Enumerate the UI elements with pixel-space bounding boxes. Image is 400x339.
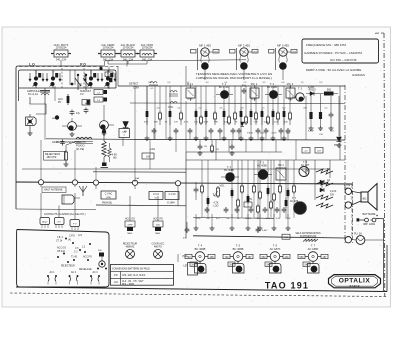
OPTALIX logo badge <box>329 275 381 288</box>
clavier key Ampl <box>40 218 50 229</box>
audio section box <box>186 152 282 238</box>
svg-text:480 KHZ: 480 KHZ <box>47 156 57 159</box>
IF transformer MF3 <box>286 83 295 101</box>
svg-text:AC 2: AC 2 <box>71 271 77 274</box>
dash separator speaker line <box>352 182 354 245</box>
svg-text:FREQUENCE MIL : 480 KHZ: FREQUENCE MIL : 480 KHZ <box>306 43 346 47</box>
svg-text:T1 45: T1 45 <box>71 257 78 259</box>
svg-text:50V: 50V <box>330 195 335 197</box>
svg-text:GHI, JAR, CL/4, SL/FF: GHI, JAR, CL/4, SL/FF <box>122 274 146 277</box>
svg-text:550: 550 <box>300 256 305 259</box>
IF decoupling caps row <box>152 128 291 140</box>
paper speckle texture <box>6 30 386 303</box>
pinout T7 AC188K <box>298 244 328 273</box>
keyboard inner labels <box>56 235 92 271</box>
output coupling labels <box>344 185 351 190</box>
svg-text:(M. PE): (M. PE) <box>76 148 84 151</box>
coupling cap audio in <box>194 182 199 200</box>
svg-text:PO/GO: PO/GO <box>76 143 85 147</box>
svg-text:beige: beige <box>251 99 257 101</box>
svg-text:GARDAN: GARDAN <box>352 73 365 77</box>
rejecteur 480 label <box>44 151 66 160</box>
hanging caps under IF rail <box>198 140 235 155</box>
coil block stubs to box <box>61 60 147 66</box>
polarised diode POL <box>334 96 342 147</box>
svg-text:M.F.1: M.F.1 <box>187 83 194 86</box>
contacts clavier label <box>44 213 86 216</box>
rail second <box>130 102 345 105</box>
svg-text:OSC: OSC <box>168 106 173 109</box>
bus contact circles <box>38 180 180 186</box>
svg-text:GO 150 ~ 240 KHZ: GO 150 ~ 240 KHZ <box>330 58 357 62</box>
svg-text:M.F. 2: M.F. 2 <box>251 83 258 86</box>
detector diode AA119 <box>306 89 320 96</box>
clavier key PO <box>70 220 80 231</box>
svg-text:5Ω: 5Ω <box>327 168 330 171</box>
wire bus to fuse <box>351 184 353 236</box>
bottom rule line <box>16 287 387 292</box>
sheet border dash-dot right <box>375 33 385 296</box>
svg-text:M.F. 3: M.F. 3 <box>287 83 294 86</box>
cap 0047 bottom rail <box>256 226 269 233</box>
feedback diodes <box>320 180 324 192</box>
oscillator transistor T osc <box>62 118 82 136</box>
choke block CHO.MOYF <box>51 43 71 62</box>
svg-text:1070/234: 1070/234 <box>56 46 67 50</box>
emitter resistors 5 ohm <box>316 168 333 174</box>
OSC PO/GO label <box>76 140 85 151</box>
supply rail top <box>118 85 345 87</box>
svg-text:47PF: 47PF <box>127 225 133 227</box>
note tensions mesurees <box>196 72 273 80</box>
AGC diode AAPP <box>308 87 315 90</box>
pinout T5 BC408B <box>223 244 253 273</box>
svg-text:CL3 , 3/4 , T/8 , SD/7: CL3 , 3/4 , T/8 , SD/7 <box>122 281 144 283</box>
svg-text:5,6K: 5,6K <box>264 122 269 124</box>
svg-text:560: 560 <box>327 89 332 92</box>
acc po resistor <box>58 94 69 105</box>
svg-text:4,7K: 4,7K <box>184 122 189 124</box>
volume pot VOL <box>213 185 225 208</box>
audio top rail <box>186 159 345 161</box>
svg-text:MF 1 455: MF 1 455 <box>199 43 211 47</box>
audio inner rail <box>193 217 274 220</box>
pinout T6 AC187K <box>260 244 290 273</box>
svg-text:REJECTEUR: REJECTEUR <box>61 266 75 268</box>
svg-text:LOG: LOG <box>213 205 218 208</box>
det coil DETECT <box>149 82 158 91</box>
osc tank cluster <box>101 128 118 168</box>
svg-text:249: 249 <box>285 256 290 259</box>
left lower verticals <box>41 86 96 180</box>
keyboard tiny parts <box>57 238 91 264</box>
svg-text:OPTALIX: OPTALIX <box>339 278 371 285</box>
tuning gang CV PO <box>75 74 89 96</box>
connexions batterie table <box>111 265 174 287</box>
svg-text:BC 408B: BC 408B <box>224 169 234 172</box>
IF can MF3 top view <box>269 43 298 70</box>
svg-text:740: 740 <box>187 256 192 259</box>
svg-text:CT 14: CT 14 <box>56 241 63 243</box>
svg-text:138: 138 <box>210 256 215 259</box>
cap 100pf osc <box>52 140 65 146</box>
svg-text:R A D I O: R A D I O <box>350 285 360 288</box>
svg-text:1Ω: 1Ω <box>327 179 330 182</box>
svg-text:SUPPRESSOR: SUPPRESSOR <box>300 235 317 238</box>
svg-text:ACC. PO: ACC. PO <box>153 218 163 221</box>
svg-text:G O: G O <box>57 222 61 224</box>
svg-text:Ampl: Ampl <box>42 221 47 224</box>
svg-text:BC 408B: BC 408B <box>233 247 244 251</box>
keyboard volume pot <box>97 250 107 270</box>
loudspeaker <box>361 184 377 211</box>
svg-text:B.F.1: B.F.1 <box>278 164 284 167</box>
ground rail IF <box>140 139 345 142</box>
svg-text:Vus côté PO ): Vus côté PO ) <box>70 213 86 216</box>
boxes 2,2 and 247 <box>302 148 323 154</box>
dark blob 5A <box>52 115 59 120</box>
band switch box <box>19 70 117 101</box>
svg-text:10UF: 10UF <box>195 218 201 220</box>
svg-text:2N2: 2N2 <box>191 264 196 267</box>
emitter resistors lower <box>316 191 337 208</box>
clavier key GO <box>55 218 65 229</box>
cour acc adjust <box>152 243 165 259</box>
svg-text:MAX.: MAX. <box>155 232 161 235</box>
svg-text:COM: COM <box>133 87 139 90</box>
svg-text:ACC PO: ACC PO <box>83 256 92 259</box>
filter cap 10V <box>318 94 324 136</box>
PO switch contact group 2 <box>101 70 116 88</box>
cap 47u mid <box>70 110 81 116</box>
svg-text:1N: 1N <box>204 146 207 148</box>
svg-text:550: 550 <box>262 256 267 259</box>
haut antenne label <box>42 187 66 193</box>
self antiparasites label <box>295 232 321 238</box>
svg-text:MAX.: MAX. <box>127 232 133 235</box>
keyboard switch a <box>47 271 57 285</box>
svg-text:6,8K: 6,8K <box>204 122 209 124</box>
model number TAO 191 <box>265 281 309 291</box>
svg-text:→GO: →GO <box>112 282 118 284</box>
antenna coil ferrite <box>40 88 50 104</box>
emitter resistors 10 ohm <box>316 179 333 186</box>
label 14A <box>135 177 139 180</box>
svg-text:AC 3: AC 3 <box>92 271 98 274</box>
svg-text:2,2K: 2,2K <box>274 122 279 124</box>
battery label <box>363 212 376 226</box>
preamp transistor T4 <box>221 166 239 182</box>
svg-text:C.PO: C.PO <box>69 236 75 238</box>
resistor 560 top right <box>320 89 338 96</box>
audio caps row <box>205 207 287 213</box>
cadre antenne line <box>46 139 140 144</box>
svg-text:4 BV.: 4 BV. <box>112 154 118 156</box>
svg-text:VOL: VOL <box>219 185 225 188</box>
det com labels <box>129 83 139 90</box>
svg-text:HAUT ANTENNE: HAUT ANTENNE <box>44 189 63 192</box>
svg-text:O 194A: O 194A <box>167 202 175 205</box>
CV OSC box <box>149 192 163 200</box>
spec box frequencies <box>302 39 379 63</box>
svg-text:(TO): (TO) <box>292 51 296 53</box>
wire stub top right of box <box>105 60 246 67</box>
survolt boxes <box>94 90 107 103</box>
svg-text:6V~0,1A: 6V~0,1A <box>28 92 38 96</box>
misc vertical wires <box>118 66 296 182</box>
svg-text:ACC GO: ACC GO <box>57 247 66 250</box>
svg-text:47µ: 47µ <box>76 112 81 115</box>
svg-text:L'ABSENCE DE SIGNAL PAR RAP: L'ABSENCE DE SIGNAL PAR RAPPORT A LA MAS… <box>196 76 273 80</box>
svg-text:MF 2 455: MF 2 455 <box>238 43 250 47</box>
frame right of logo <box>386 245 388 292</box>
note debit a vide <box>306 68 365 77</box>
svg-text:82K: 82K <box>154 122 158 124</box>
svg-text:CONTACTS CLAVIER (: CONTACTS CLAVIER ( <box>44 213 70 216</box>
fuse holder <box>345 233 365 245</box>
svg-text:47K: 47K <box>144 122 148 124</box>
keyboard switch b <box>69 271 79 285</box>
svg-text:100/7: 100/7 <box>271 133 277 135</box>
mid rail value labels <box>157 107 329 109</box>
audio ground row <box>194 214 291 230</box>
svg-text:DECELAGE: DECELAGE <box>79 268 92 271</box>
top rail value labels <box>148 82 323 84</box>
IF can MF2 top view <box>230 43 259 70</box>
diode osc right <box>123 122 129 134</box>
thermistor CTN <box>244 198 252 207</box>
svg-text:CTN: CTN <box>247 198 252 201</box>
svg-text:6,8UF: 6,8UF <box>308 131 315 133</box>
pinout T4 BC408B <box>185 244 215 273</box>
suppressor coil <box>303 239 318 242</box>
svg-text:39K: 39K <box>214 122 218 124</box>
coil block BOB.BLANC <box>118 43 138 62</box>
svg-text:T. 3: T. 3 <box>298 88 303 91</box>
LO switch contact group 2 <box>46 70 61 88</box>
svg-text:8,2K: 8,2K <box>276 218 281 220</box>
svg-text:AC 187K: AC 187K <box>270 247 281 251</box>
svg-text:BC 409B: BC 409B <box>257 165 267 168</box>
cag label and box <box>142 148 155 159</box>
svg-text:CONNEXIONS BATTERIE (9V PILE): CONNEXIONS BATTERIE (9V PILE) <box>112 268 150 271</box>
svg-text:blanc: blanc <box>187 99 193 101</box>
battery symbol <box>357 213 381 222</box>
drops to clavier keys <box>41 193 158 221</box>
svg-text:(PM): (PM) <box>106 197 111 199</box>
audio value labels <box>195 218 291 220</box>
padder 3400 box <box>82 100 90 114</box>
svg-text:480 PO: 480 PO <box>154 246 162 249</box>
svg-text:1070/234: 1070/234 <box>103 46 114 50</box>
svg-text:540 - 234: 540 - 234 <box>56 58 67 61</box>
right stack components <box>99 67 113 90</box>
PO switch contact group 1 <box>84 70 99 88</box>
svg-text:100UF: 100UF <box>245 218 252 220</box>
chassis bus line <box>16 182 352 184</box>
coil block BOB.FERR <box>98 43 118 62</box>
svg-text:(M): (M) <box>113 157 117 159</box>
transistor T3 det <box>292 88 304 102</box>
audio electrolytic 47uF <box>183 222 189 240</box>
svg-text:27K: 27K <box>174 122 178 124</box>
svg-text:BF 194B: BF 194B <box>267 86 277 89</box>
car antenna symbol <box>79 186 87 196</box>
svg-text:G O: G O <box>78 235 82 237</box>
svg-text:0,047: 0,047 <box>262 230 268 232</box>
osc transformer <box>168 91 178 110</box>
diode left edge band <box>241 122 245 126</box>
svg-text:187: 187 <box>248 256 253 259</box>
svg-text:2N2: 2N2 <box>229 264 234 267</box>
svg-text:TAO 191: TAO 191 <box>265 281 309 291</box>
output transistor T6 AC187 <box>299 161 310 177</box>
svg-text:6,8/20: 6,8/20 <box>247 133 254 135</box>
bus drops <box>41 185 178 206</box>
battery positive wire to frame <box>380 219 384 292</box>
sheet border dashed bottom <box>10 293 388 297</box>
svg-text:8Ω: 8Ω <box>363 197 367 201</box>
LO switch contact group 1 <box>29 70 44 88</box>
audio resistors row <box>201 160 296 218</box>
speaker terminals <box>345 188 361 208</box>
svg-text:→PO: →PO <box>112 275 118 277</box>
svg-text:(4): (4) <box>68 240 71 242</box>
osc coil with slug <box>66 137 93 152</box>
box 1A5 osc right <box>119 129 130 146</box>
keyboard switch c <box>90 271 100 285</box>
svg-text:540: 540 <box>267 264 272 267</box>
mixer transistor right <box>100 105 114 135</box>
svg-text:ACC. GO: ACC. GO <box>125 218 135 221</box>
svg-text:MF 3 455: MF 3 455 <box>277 43 289 47</box>
svg-text:AAPP: AAPP <box>308 87 315 90</box>
rejecteur adjust <box>123 243 138 259</box>
svg-text:AC 1: AC 1 <box>49 271 55 274</box>
survolt label <box>80 90 92 93</box>
inner box bottom second line <box>93 171 186 173</box>
svg-text:25UF: 25UF <box>285 218 291 220</box>
cap 0,05 right <box>329 96 335 133</box>
svg-text:BATTERIE: BATTERIE <box>363 212 376 216</box>
svg-text:(TO): (TO) <box>253 51 257 53</box>
audio mid vertical lines <box>306 86 340 200</box>
svg-text:GAMMES D'ONDES : PO 520 ~ 162: GAMMES D'ONDES : PO 520 ~ 1620KHZ <box>304 51 362 55</box>
second bus line <box>96 204 186 207</box>
svg-text:1070/234: 1070/234 <box>123 46 134 50</box>
band switch dashed bracket <box>19 62 118 66</box>
driver transistor T5 <box>254 162 272 180</box>
svg-text:0,1UF: 0,1UF <box>330 191 337 193</box>
svg-text:DETECT: DETECT <box>129 83 139 86</box>
trimmer ACC GO <box>125 218 135 236</box>
filter cap 6,8uF <box>308 94 315 133</box>
pilot lamp label AMPOULE <box>27 89 40 96</box>
box 135 bottom <box>282 234 290 239</box>
svg-text:SC: SC <box>154 197 157 199</box>
svg-text:C.V.19: C.V.19 <box>169 194 177 196</box>
wire fuse to right <box>365 239 384 241</box>
svg-text:540: 540 <box>305 264 310 267</box>
svg-text:8,2K: 8,2K <box>224 122 229 124</box>
svg-text:C.V.O: C.V.O <box>153 194 159 196</box>
keyboard big box <box>17 230 109 288</box>
output transistor T7 AC188 <box>290 197 307 215</box>
jack boxes near table <box>178 254 198 275</box>
svg-text:CAG: CAG <box>150 148 155 151</box>
second row labels right <box>247 133 291 135</box>
svg-text:FM54 (M): FM54 (M) <box>102 203 112 205</box>
CV 194 box <box>165 192 179 205</box>
dash-dot separator output <box>344 85 346 245</box>
svg-text:740: 740 <box>225 256 230 259</box>
transistor T2 BF194 <box>265 83 282 99</box>
switch box inner wires <box>36 70 108 85</box>
pilot lamp <box>26 114 37 135</box>
neutralising cap 90A <box>242 85 247 95</box>
svg-text:47K: 47K <box>216 218 220 220</box>
svg-text:BI/9 ~ PR/N.: BI/9 ~ PR/N. <box>122 284 135 286</box>
trimmer ACC PO <box>153 218 163 236</box>
svg-text:14A: 14A <box>135 177 139 180</box>
svg-text:IMP. 120Ω: IMP. 120Ω <box>363 222 375 226</box>
CV ACC box <box>101 191 116 199</box>
IF ground symbols <box>145 119 287 140</box>
switch box bottom edge <box>19 87 117 89</box>
svg-text:(TO): (TO) <box>214 51 218 53</box>
audio bottom rail <box>193 236 345 238</box>
switch compartment dividers <box>62 68 84 88</box>
IF value labels <box>144 122 289 124</box>
IF transformer MF2 <box>250 83 259 101</box>
svg-text:SURVOLT: SURVOLT <box>80 90 92 93</box>
resistor osc emitter <box>64 150 69 166</box>
driver transformer <box>276 164 286 180</box>
svg-text:BC 408B: BC 408B <box>195 247 206 251</box>
svg-text:1070/234: 1070/234 <box>142 46 153 50</box>
svg-text:ACC: ACC <box>58 98 63 101</box>
svg-text:AC 188K: AC 188K <box>308 247 319 251</box>
IF bias resistors row <box>146 86 292 125</box>
IF transformer MF1 <box>186 83 195 101</box>
antenna jack <box>62 195 80 204</box>
svg-text:C.V.AC: C.V.AC <box>105 193 113 196</box>
svg-text:CADRE ANTENNE GO ~ PO: CADRE ANTENNE GO ~ PO <box>56 141 86 144</box>
svg-text:J.B. 2: J.B. 2 <box>57 237 64 239</box>
coil block BOB.NOIR <box>137 43 157 62</box>
svg-text:187: 187 <box>323 256 328 259</box>
main circuit outer box <box>16 66 104 210</box>
svg-text:P O: P O <box>73 224 77 226</box>
lamp wire loop <box>30 97 46 114</box>
svg-text:PO: PO <box>58 102 62 104</box>
svg-text:480KHZ: 480KHZ <box>126 246 135 249</box>
transistor T1 BC171 <box>216 83 233 99</box>
IF can MF1 top view <box>191 43 220 70</box>
svg-text:10K: 10K <box>254 122 258 124</box>
svg-text:PU. 2A: PU. 2A <box>354 233 362 236</box>
FM54 label <box>102 203 112 205</box>
RF box bottom edge <box>22 168 330 170</box>
if lower drop wires <box>150 96 306 169</box>
svg-text:DEBIT A VIDE : 50 mA AVEC LA: DEBIT A VIDE : 50 mA AVEC LA GAMME <box>306 68 361 72</box>
svg-text:PU: PU <box>216 149 219 151</box>
svg-text:beige: beige <box>288 99 294 101</box>
